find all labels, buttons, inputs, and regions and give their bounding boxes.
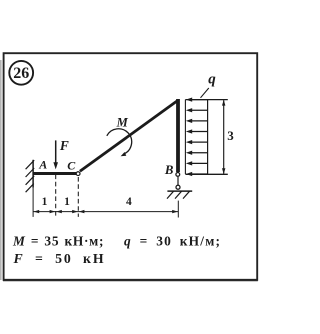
wall support at A (hatching) (26, 160, 35, 192)
dimension arrowheads (34, 210, 178, 213)
bottom dimension extension lines (32, 188, 34, 217)
svg-text:B: B (164, 163, 174, 177)
dimension 3 (right) (223, 100, 225, 174)
svg-text:1: 1 (42, 196, 48, 208)
svg-text:q: q (208, 71, 216, 87)
distributed load arrows (186, 98, 208, 177)
svg-text:M = 35 кН·м;: M = 35 кН·м; (12, 234, 104, 249)
force F arrow (55, 140, 57, 163)
beam A-C (33, 172, 76, 175)
inclined bar C to top corner (80, 100, 178, 171)
svg-text:26: 26 (13, 65, 29, 82)
svg-text:4: 4 (126, 196, 132, 208)
bottom dimension line (33, 211, 178, 213)
ground line at B support (167, 190, 192, 192)
problem number badge circle 26 (9, 61, 33, 85)
svg-text:F: F (59, 138, 69, 153)
scan gutter shade left edge (0, 60, 2, 280)
moment M arc arrow (107, 129, 132, 154)
frame border (4, 53, 258, 280)
svg-text:C: C (67, 158, 76, 172)
svg-text:q = 30 кН/м;: q = 30 кН/м; (124, 234, 221, 249)
support link below B (177, 177, 179, 185)
wall vertical line at A (32, 160, 34, 188)
svg-text:F = 50 кН: F = 50 кН (13, 251, 106, 266)
hinge circle at B (176, 173, 180, 177)
frame bottom edge thickening (3, 280, 258, 282)
hinge circle at C (76, 172, 80, 176)
svg-text:M: M (116, 115, 129, 129)
svg-text:1: 1 (64, 196, 70, 208)
svg-text:3: 3 (227, 128, 234, 143)
vertical bar top corner to B (176, 99, 180, 172)
svg-text:A: A (38, 157, 47, 171)
ground hatching (167, 191, 190, 198)
distributed load q: rectangle edges (184, 100, 186, 174)
support lower circle (176, 185, 180, 189)
